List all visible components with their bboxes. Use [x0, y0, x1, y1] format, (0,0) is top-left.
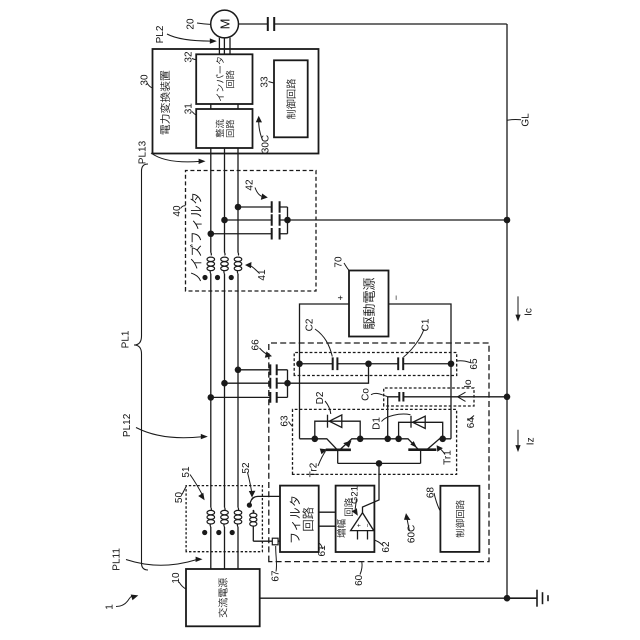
svg-text:52: 52 [241, 462, 252, 474]
svg-text:+: + [336, 295, 346, 300]
svg-text:20: 20 [186, 18, 197, 30]
svg-text:30: 30 [140, 74, 151, 86]
svg-text:66: 66 [250, 339, 261, 351]
svg-text:32: 32 [184, 51, 195, 63]
svg-text:41: 41 [257, 269, 268, 281]
svg-text:63: 63 [279, 415, 290, 427]
svg-text:C1: C1 [421, 318, 432, 331]
svg-text:70: 70 [334, 256, 345, 268]
svg-text:64: 64 [466, 417, 477, 429]
svg-text:Io: Io [463, 379, 474, 388]
svg-text:Iz: Iz [525, 437, 536, 445]
svg-text:33: 33 [260, 76, 271, 88]
svg-text:PL12: PL12 [122, 413, 133, 437]
svg-text:D2: D2 [315, 391, 326, 404]
svg-text:PL13: PL13 [138, 140, 149, 164]
svg-text:Tr2: Tr2 [309, 462, 320, 477]
svg-text:60C: 60C [407, 525, 418, 543]
svg-text:51: 51 [181, 466, 192, 478]
svg-text:30C: 30C [261, 135, 272, 153]
svg-text:68: 68 [425, 487, 436, 499]
svg-text:PL1: PL1 [121, 330, 132, 348]
svg-text:C2: C2 [305, 318, 316, 331]
svg-text:42: 42 [245, 179, 256, 191]
svg-text:10: 10 [171, 572, 182, 584]
svg-text:Ic: Ic [524, 308, 535, 316]
svg-text:Co: Co [361, 388, 372, 401]
svg-text:GL: GL [521, 113, 532, 127]
svg-text:1: 1 [105, 604, 116, 610]
svg-text:62: 62 [381, 541, 392, 553]
svg-text:40: 40 [172, 205, 183, 217]
svg-text:65: 65 [469, 358, 480, 370]
svg-text:31: 31 [183, 103, 194, 115]
svg-text:PL2: PL2 [155, 25, 166, 43]
svg-text:M: M [218, 19, 233, 30]
svg-text:50: 50 [174, 492, 185, 504]
svg-text:61: 61 [317, 545, 328, 557]
svg-text:−: − [365, 523, 372, 527]
svg-text:60: 60 [354, 574, 365, 586]
svg-text:G21: G21 [350, 486, 361, 504]
svg-text:Tr1: Tr1 [443, 450, 454, 465]
svg-text:PL11: PL11 [112, 548, 123, 571]
svg-text:D1: D1 [371, 417, 382, 430]
svg-text:+: + [356, 523, 363, 527]
svg-text:−: − [391, 295, 401, 300]
svg-text:67: 67 [271, 570, 282, 582]
